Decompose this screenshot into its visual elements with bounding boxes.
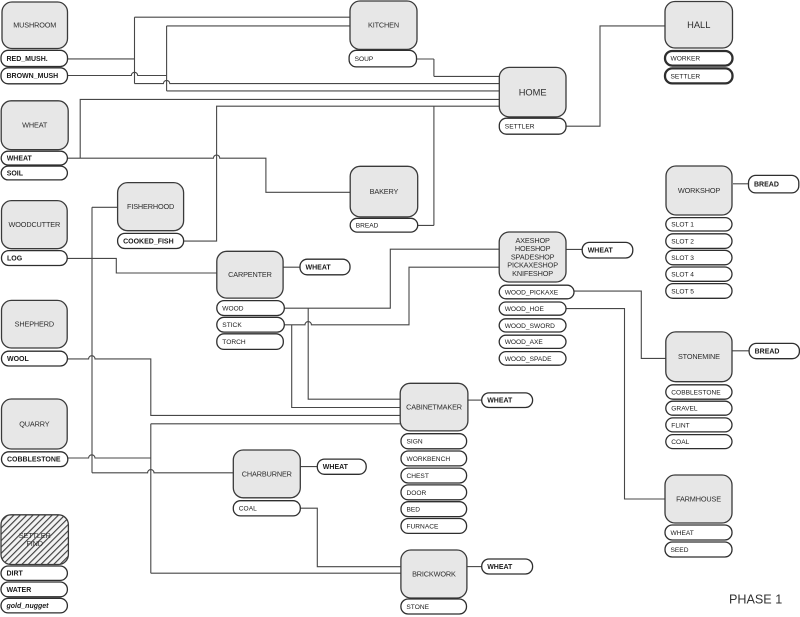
svg-text:COBBLESTONE: COBBLESTONE	[671, 389, 721, 396]
svg-text:CHARBURNER: CHARBURNER	[242, 469, 292, 478]
wire STICK to CABINETMAKER	[292, 325, 401, 408]
wire AXESHOP to WHEAT in	[566, 248, 582, 250]
svg-text:COOKED_FISH: COOKED_FISH	[123, 238, 174, 245]
svg-text:RED_MUSH.: RED_MUSH.	[7, 56, 48, 63]
output COAL of STONEMINE	[666, 435, 732, 449]
svg-text:WOOD_SWORD: WOOD_SWORD	[505, 323, 555, 330]
svg-text:WHEAT: WHEAT	[22, 121, 48, 130]
svg-text:WOODCUTTER: WOODCUTTER	[9, 220, 61, 229]
svg-text:BREAD: BREAD	[356, 223, 379, 230]
building BAKERY	[350, 166, 418, 217]
wire WORKSHOP to BREAD in	[733, 183, 749, 185]
output GRAVEL	[666, 401, 732, 415]
output COBBLESTONE	[2, 452, 68, 467]
output WOOD_PICKAXE	[499, 285, 574, 299]
output STICK	[217, 317, 284, 332]
wire WOOL to CABINETMAKER	[67, 356, 400, 416]
svg-text:WOOL: WOOL	[7, 356, 29, 363]
svg-text:FLINT: FLINT	[671, 422, 689, 429]
svg-text:SIGN: SIGN	[407, 439, 423, 446]
svg-text:SEED: SEED	[671, 547, 689, 554]
svg-text:SETTLER: SETTLER	[505, 124, 535, 131]
svg-text:FARMHOUSE: FARMHOUSE	[676, 494, 721, 503]
svg-text:WHEAT: WHEAT	[323, 464, 349, 471]
svg-text:WHEAT: WHEAT	[671, 530, 694, 537]
output FURNACE	[401, 519, 467, 534]
svg-text:gold_nugget: gold_nugget	[6, 603, 50, 610]
building HOME	[499, 67, 566, 117]
wire WOOD_PICKAXE to STONEMINE	[574, 291, 666, 358]
wire FISHERHOOD stub	[92, 206, 118, 208]
svg-text:WATER: WATER	[7, 587, 32, 594]
wire CHARBURNER to WHEAT in	[300, 466, 317, 468]
svg-text:TORCH: TORCH	[222, 339, 246, 346]
output DOOR	[401, 485, 467, 500]
output BED	[401, 502, 467, 517]
output WOOD_HOE	[499, 302, 566, 315]
svg-text:SHEPHERD: SHEPHERD	[15, 320, 54, 329]
svg-text:STICK: STICK	[222, 322, 242, 329]
wire BROWN_MUSH to riser	[67, 72, 167, 75]
output WHEAT in of CHARBURNER	[317, 459, 366, 474]
wire WOOD to CABINETMAKER	[308, 308, 400, 399]
output SIGN	[401, 434, 467, 449]
output WOOD_AXE	[499, 335, 566, 348]
output BREAD of BAKERY	[350, 218, 418, 232]
svg-text:STONE: STONE	[406, 604, 429, 611]
building FISHERHOOD	[118, 183, 184, 231]
svg-text:COAL: COAL	[671, 439, 689, 446]
wire BROWN_MUSH to HOME	[167, 90, 500, 92]
output gold_nugget	[1, 598, 67, 613]
wire riser x433.9 upper	[433, 59, 435, 76]
svg-text:DOOR: DOOR	[407, 490, 427, 497]
svg-text:WOOD_AXE: WOOD_AXE	[505, 339, 544, 346]
svg-text:BRICKWORK: BRICKWORK	[412, 569, 456, 578]
output COOKED_FISH	[118, 233, 184, 248]
svg-text:PHASE 1: PHASE 1	[729, 593, 782, 607]
svg-text:BREAD: BREAD	[755, 348, 780, 355]
svg-text:WOOD_SPADE: WOOD_SPADE	[505, 356, 552, 363]
wire COBBLESTONE to junction	[68, 455, 151, 458]
wire RED_MUSH. to junction	[67, 58, 135, 60]
output WHEAT in of CARPENTER	[300, 259, 350, 275]
svg-text:FURNACE: FURNACE	[407, 523, 439, 530]
wire COOKED_FISH to HOME	[184, 106, 500, 241]
building SHEPHERD	[2, 300, 68, 348]
building MUSHROOM	[2, 2, 68, 49]
svg-text:SLOT 4: SLOT 4	[671, 272, 694, 279]
building FARMHOUSE	[665, 475, 732, 523]
wire WHEAT out to BAKERY run	[67, 155, 350, 192]
output WOOD_SWORD	[499, 319, 566, 332]
building WORKSHOP	[666, 166, 732, 215]
output SETTLER of HOME	[499, 118, 566, 134]
output WORKBENCH	[401, 451, 467, 466]
wire to CHARBURNER	[92, 470, 233, 473]
svg-text:COAL: COAL	[239, 506, 257, 513]
output BREAD in of WORKSHOP	[749, 175, 799, 193]
building WOODCUTTER	[2, 201, 68, 249]
svg-text:HOME: HOME	[519, 87, 547, 97]
building SETTLER FIND	[1, 515, 68, 565]
building BRICKWORK	[401, 550, 467, 598]
building WHEAT farm	[1, 101, 68, 150]
output WHEAT in of CABINETMAKER	[482, 393, 533, 408]
svg-text:CHEST: CHEST	[407, 473, 429, 480]
svg-text:CARPENTER: CARPENTER	[228, 270, 272, 279]
output WOOD	[217, 301, 284, 316]
wire riser x92	[91, 207, 93, 473]
output BROWN_MUSH	[1, 68, 68, 84]
svg-text:HALL: HALL	[687, 20, 710, 30]
wire SETTLER to HALL	[566, 26, 665, 126]
output BREAD in of STONEMINE	[749, 343, 799, 358]
output SLOT 4	[666, 267, 732, 281]
svg-text:QUARRY: QUARRY	[19, 419, 49, 428]
output WHEAT in of BRICKWORK	[482, 559, 533, 574]
building KITCHEN	[350, 1, 417, 49]
wire riser x166.6	[166, 26, 168, 91]
svg-text:WORKBENCH: WORKBENCH	[407, 456, 451, 463]
svg-text:BREAD: BREAD	[754, 182, 779, 189]
svg-text:STONEMINE: STONEMINE	[678, 352, 720, 361]
output SLOT 5	[666, 284, 732, 299]
svg-text:SLOT 5: SLOT 5	[671, 288, 694, 295]
output SLOT 2	[666, 234, 732, 249]
wire WHEAT riser to HOME	[80, 99, 499, 158]
svg-text:FISHERHOOD: FISHERHOOD	[127, 202, 174, 211]
svg-text:SOUP: SOUP	[355, 56, 374, 63]
building HALL	[665, 2, 733, 49]
output STONE	[401, 599, 467, 614]
output COBBLESTONE of STONEMINE	[666, 385, 732, 399]
wire riser x150.8	[150, 424, 152, 573]
svg-text:GRAVEL: GRAVEL	[671, 406, 698, 413]
svg-text:KNIFESHOP: KNIFESHOP	[512, 269, 553, 278]
svg-text:WHEAT: WHEAT	[487, 398, 513, 405]
svg-text:KITCHEN: KITCHEN	[368, 21, 399, 30]
output LOG	[2, 251, 68, 266]
wire WOOD_HOE to FARMHOUSE	[566, 309, 665, 499]
output DIRT	[1, 566, 67, 580]
svg-text:SLOT 2: SLOT 2	[671, 239, 694, 246]
svg-text:WHEAT: WHEAT	[7, 156, 33, 163]
wire STONEMINE to BREAD in	[733, 350, 750, 352]
output WHEAT of FARMHOUSE	[665, 525, 732, 540]
svg-text:WORKER: WORKER	[671, 56, 701, 63]
building QUARRY	[2, 399, 68, 449]
svg-text:BROWN_MUSH: BROWN_MUSH	[7, 73, 59, 80]
wire COBBLESTONE to BRICKWORK	[151, 572, 401, 574]
wire BREAD of BAKERY to riser	[418, 224, 434, 226]
building CHARBURNER	[233, 450, 300, 498]
output WHEAT out	[1, 151, 67, 165]
output WOOD_SPADE	[499, 352, 566, 366]
svg-text:WHEAT: WHEAT	[588, 248, 614, 255]
svg-text:FIND: FIND	[26, 539, 42, 548]
building CABINETMAKER	[400, 383, 468, 431]
building CARPENTER	[217, 251, 283, 298]
wire SOUP to HOME	[434, 75, 499, 77]
wire CARPENTER to WHEAT in	[283, 266, 300, 268]
svg-text:WOOD_HOE: WOOD_HOE	[505, 306, 545, 313]
svg-text:LOG: LOG	[7, 255, 23, 262]
svg-text:WOOD_PICKAXE: WOOD_PICKAXE	[505, 289, 559, 296]
output SOIL	[1, 166, 67, 180]
wire WOOD to AXESHOP	[284, 249, 499, 308]
building STONEMINE	[666, 332, 732, 382]
svg-text:SETTLER: SETTLER	[671, 73, 701, 80]
output FLINT	[666, 418, 732, 432]
svg-text:SLOT 3: SLOT 3	[671, 255, 694, 262]
wire COAL to BRICKWORK	[300, 508, 401, 567]
wire LOG to CARPENTER	[67, 258, 217, 273]
svg-text:DIRT: DIRT	[7, 571, 24, 578]
wire SOUP to riser	[417, 58, 434, 60]
svg-text:WHEAT: WHEAT	[306, 264, 332, 271]
svg-text:SLOT 1: SLOT 1	[671, 222, 694, 229]
output SLOT 3	[666, 250, 732, 264]
output SOUP	[349, 50, 416, 67]
svg-text:SOIL: SOIL	[7, 170, 24, 177]
wire riser x134.5	[134, 17, 136, 83]
output WATER	[1, 582, 67, 597]
wire CABINETMAKER to WHEAT in	[468, 399, 482, 401]
svg-text:MUSHROOM: MUSHROOM	[13, 21, 56, 30]
output TORCH	[217, 334, 283, 350]
wire to KITCHEN top input	[135, 16, 351, 18]
svg-text:CABINETMAKER: CABINETMAKER	[406, 403, 462, 412]
output SETTLER of HALL	[665, 68, 733, 83]
svg-text:BAKERY: BAKERY	[370, 187, 399, 196]
output CHEST	[401, 468, 467, 483]
svg-text:COBBLESTONE: COBBLESTONE	[7, 457, 61, 464]
output SEED	[665, 542, 732, 557]
svg-text:WOOD: WOOD	[222, 305, 243, 312]
output SLOT 1	[666, 218, 732, 231]
output RED_MUSH.	[1, 50, 68, 66]
output WOOL	[2, 351, 68, 366]
svg-text:WORKSHOP: WORKSHOP	[678, 186, 720, 195]
output COAL of CHARBURNER	[233, 501, 300, 516]
output WORKER	[665, 51, 733, 66]
svg-text:BED: BED	[407, 507, 421, 514]
wire RED_MUSH. to HOME	[135, 80, 500, 83]
wire riser x433.9 lower	[433, 106, 435, 225]
wire COBBLESTONE to CABINETMAKER	[151, 423, 400, 425]
building AXESHOP group	[499, 232, 566, 282]
wire STICK to AXESHOP	[284, 267, 499, 325]
svg-text:WHEAT: WHEAT	[487, 564, 513, 571]
wire BRICKWORK to WHEAT in	[467, 566, 482, 568]
output WHEAT in of AXESHOP	[582, 242, 633, 258]
wire BROWN_MUSH to KITCHEN	[167, 25, 350, 27]
